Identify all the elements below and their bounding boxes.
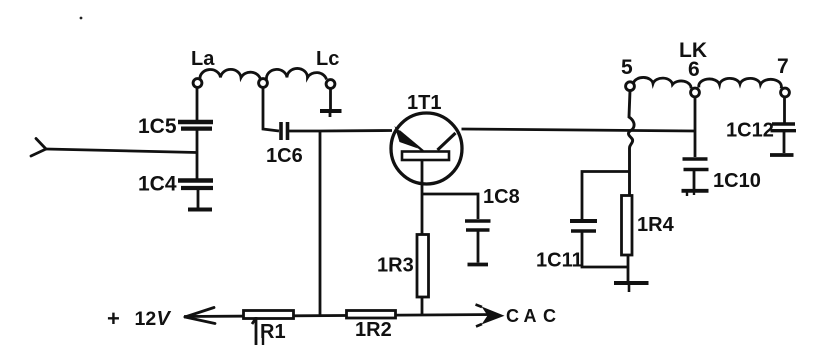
svg-text:R1: R1 <box>260 321 286 343</box>
wire middle node down to 1C6 <box>263 88 279 131</box>
wire node to 1C5 <box>196 88 199 121</box>
resistor 1R4 <box>622 196 633 256</box>
ground under 1C10 <box>682 189 709 193</box>
svg-text:1T1: 1T1 <box>407 92 441 114</box>
wire 1C12 to ground <box>783 132 786 153</box>
wire branch to 1C11 <box>582 172 630 220</box>
ground under Lc <box>320 111 342 117</box>
resistor 1R1 <box>244 311 294 319</box>
capacitor 1C10 <box>683 159 709 170</box>
node circle pin 6 <box>691 88 700 97</box>
resistor 1R3 <box>417 235 429 298</box>
svg-text:A: A <box>524 306 537 326</box>
wire pin5 down with jog <box>628 91 634 197</box>
svg-text:La: La <box>191 48 215 70</box>
wire branch to 1C8 <box>422 194 478 219</box>
svg-text:5: 5 <box>621 56 633 79</box>
wire 1C11 bottom back to main <box>582 232 629 267</box>
ground under 1C4 <box>188 208 212 212</box>
capacitor 1C11 <box>570 221 597 231</box>
wire transistor base lead down <box>421 160 424 235</box>
wire pin7 down to 1C12 <box>783 97 786 123</box>
svg-text:C: C <box>506 306 519 326</box>
inductor Lc <box>266 68 326 79</box>
inductor LK section 5-6 <box>634 77 692 88</box>
node circle pin 7 <box>781 88 790 97</box>
wire pin6 down to 1C10 <box>694 97 697 157</box>
node circle Lc right <box>326 80 335 89</box>
ground under 1R4 <box>614 281 649 285</box>
wire 1C4 to ground <box>197 188 200 208</box>
wire node down to bottom rail <box>319 131 322 315</box>
wire 1R4 to ground <box>627 255 630 281</box>
node circle La left <box>193 79 202 88</box>
svg-text:1C12: 1C12 <box>726 120 774 142</box>
wire 1C8 to ground <box>477 231 480 263</box>
wire antenna to node <box>46 149 197 153</box>
svg-text:1C4: 1C4 <box>138 173 177 196</box>
ground under 1C12 <box>770 153 794 157</box>
arrow right to CAC <box>482 307 505 325</box>
svg-text:1C11: 1C11 <box>536 250 583 272</box>
node circle pin 5 <box>626 82 635 91</box>
svg-text:C: C <box>543 306 556 326</box>
capacitor 1C8 <box>465 221 491 230</box>
svg-text:1R4: 1R4 <box>637 214 675 236</box>
arrow left to +12V <box>185 308 215 324</box>
svg-text:1C5: 1C5 <box>138 115 177 138</box>
label +12V <box>107 306 172 331</box>
label CAC <box>506 306 556 326</box>
wire 1C10 to ground <box>693 171 696 189</box>
capacitor 1C6 <box>281 122 288 140</box>
svg-text:12: 12 <box>135 308 157 330</box>
capacitor 1C12 <box>771 124 797 131</box>
svg-text:+: + <box>107 306 120 331</box>
wire 1C6 to base node <box>289 129 392 132</box>
wire 1R3 to rail <box>421 297 424 315</box>
svg-text:Lc: Lc <box>316 48 339 70</box>
svg-text:6: 6 <box>688 58 700 81</box>
svg-text:V: V <box>157 308 172 330</box>
node circle La/Lc middle <box>259 79 268 88</box>
inductor La <box>200 69 261 79</box>
svg-text:1R3: 1R3 <box>377 255 414 277</box>
speck dot top left <box>80 17 83 20</box>
svg-text:1C6: 1C6 <box>266 145 303 167</box>
wire 1C5 to antenna junction <box>196 129 199 179</box>
svg-text:7: 7 <box>777 55 789 78</box>
capacitor 1C4 <box>178 181 213 189</box>
bottom rail wire <box>184 315 497 317</box>
svg-text:1R2: 1R2 <box>355 319 392 341</box>
svg-text:1C10: 1C10 <box>713 170 761 192</box>
capacitor 1C5 <box>178 122 213 129</box>
wire collector to right <box>462 129 696 131</box>
ground under 1C8 <box>468 263 489 267</box>
inductor LK section 6-7 <box>699 78 782 88</box>
svg-text:1C8: 1C8 <box>483 186 520 208</box>
antenna input <box>31 139 46 157</box>
label 1R1 <box>252 317 286 345</box>
resistor 1R2 <box>347 311 396 319</box>
wire Lc right to ground <box>329 89 332 109</box>
transistor 1T1 <box>391 113 462 184</box>
